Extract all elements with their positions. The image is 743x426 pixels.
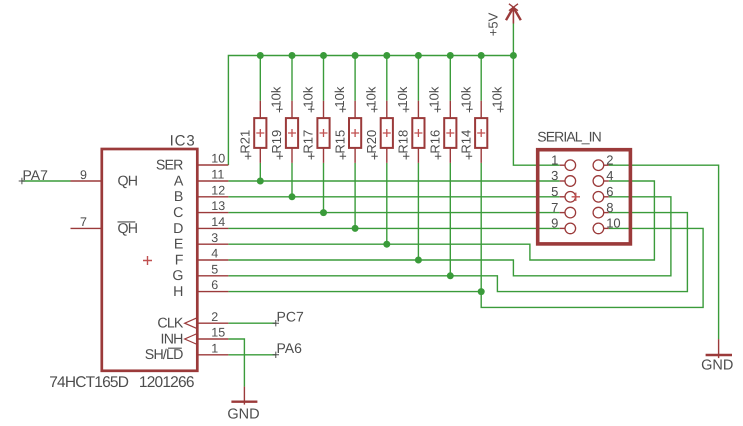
svg-text:15: 15 [211, 326, 225, 340]
wire PA7 to IC pin 9 [22, 180, 71, 182]
svg-text:10k: 10k [332, 86, 347, 107]
wire R17 bottom to net row [323, 163, 325, 213]
wire R21 bottom to net row [259, 163, 261, 181]
svg-text:11: 11 [211, 168, 224, 182]
wire R20 bottom to net row [386, 163, 388, 244]
junction R14 bottom [478, 288, 485, 295]
IC origin cross [143, 256, 152, 265]
svg-text:+5V: +5V [486, 12, 501, 36]
svg-text:5: 5 [211, 262, 218, 276]
svg-text:GND: GND [227, 406, 259, 422]
svg-text:SH/LD: SH/LD [145, 347, 183, 363]
svg-text:10k: 10k [269, 86, 284, 107]
svg-text:R18: R18 [396, 130, 411, 154]
svg-text:R21: R21 [238, 130, 253, 154]
resistor R16 10k [449, 101, 451, 118]
wire R20 top to +5V bus [386, 56, 388, 101]
svg-text:3: 3 [551, 168, 558, 183]
junction R20 top [383, 52, 390, 59]
svg-text:PA6: PA6 [277, 340, 303, 356]
wire R21 top to +5V bus [259, 56, 261, 101]
svg-text:CLK: CLK [157, 316, 184, 332]
svg-text:13: 13 [211, 199, 225, 213]
svg-text:H: H [173, 284, 183, 300]
junction R20 bottom [383, 241, 390, 248]
wire R15 bottom to net row [354, 163, 356, 229]
wire R17 top to +5V bus [323, 56, 325, 101]
wire R16 top to +5V bus [449, 56, 451, 101]
wire R19 bottom to net row [291, 163, 293, 197]
IC IC3 74HCT165D box [102, 149, 198, 371]
wire net B from IC to connector pin 5 [228, 196, 559, 198]
svg-text:10: 10 [211, 152, 225, 166]
svg-text:6: 6 [606, 184, 613, 199]
resistor R19 10k [291, 101, 293, 118]
svg-text:QH: QH [118, 173, 138, 189]
svg-text:2: 2 [606, 152, 613, 167]
svg-text:F: F [175, 252, 184, 268]
wire R16 bottom to net row [449, 163, 451, 276]
resistor R18 10k [417, 101, 419, 118]
junction R17 bottom [320, 209, 327, 216]
wire R18 top to +5V bus [417, 56, 419, 101]
svg-text:R20: R20 [364, 130, 379, 154]
svg-text:10k: 10k [363, 86, 378, 107]
svg-text:IC3: IC3 [170, 133, 196, 150]
svg-text:D: D [173, 221, 183, 237]
svg-text:INH: INH [161, 331, 184, 347]
svg-text:1: 1 [211, 341, 218, 355]
svg-text:7: 7 [80, 215, 87, 229]
svg-text:PC7: PC7 [277, 309, 304, 325]
wire net F from IC wrapping to connector pin 6 [228, 197, 671, 276]
svg-text:R16: R16 [428, 130, 443, 154]
junction R18 bottom [415, 257, 422, 264]
wire +5V riser down to connector pin 1 [513, 24, 559, 166]
connector SERIAL_IN box [538, 150, 631, 244]
clock wedge on INH pin [185, 334, 198, 345]
junction +5V riser on bus [510, 52, 517, 59]
wire net D from IC to connector pin 9 [228, 227, 559, 229]
svg-text:R17: R17 [301, 130, 316, 154]
resistor R21 10k [259, 101, 261, 118]
wire R18 bottom to net row [417, 163, 419, 260]
junction R15 top [352, 52, 359, 59]
svg-text:R15: R15 [332, 130, 347, 154]
svg-text:74HCT165D: 74HCT165D [49, 374, 129, 391]
wire PA6 to IC SH/LD pin [228, 354, 275, 356]
wire net H from IC wrapping to connector pin 10 [228, 228, 703, 307]
wire net C from IC to connector pin 7 [228, 212, 559, 214]
svg-text:R19: R19 [269, 130, 284, 154]
svg-text:GND: GND [701, 358, 733, 374]
svg-text:14: 14 [211, 215, 225, 229]
junction R17 top [320, 52, 327, 59]
resistor R20 10k [386, 101, 388, 118]
svg-text:10: 10 [606, 216, 620, 231]
clock wedge on CLK pin [185, 318, 198, 329]
svg-text:4: 4 [606, 168, 613, 183]
connector pin stubs and pads [560, 164, 565, 166]
svg-text:9: 9 [551, 216, 558, 231]
svg-text:G: G [172, 268, 182, 284]
svg-text:5: 5 [551, 184, 558, 199]
wire net E from IC wrapping to connector pin 4 [228, 181, 654, 260]
wire R15 top to +5V bus [354, 56, 356, 101]
IC right pin stubs [197, 164, 228, 166]
junction R15 bottom [352, 225, 359, 232]
svg-text:8: 8 [606, 200, 613, 215]
svg-text:1201266: 1201266 [139, 374, 194, 391]
junction R21 bottom [257, 178, 264, 185]
svg-text:2: 2 [211, 310, 218, 324]
junction R21 top [257, 52, 264, 59]
svg-text:6: 6 [211, 278, 218, 292]
junction R16 bottom [447, 272, 454, 279]
wire R14 top to +5V bus [480, 56, 482, 101]
junction R16 top [447, 52, 454, 59]
wire net G from IC wrapping to connector pin 8 [228, 213, 687, 292]
svg-text:1: 1 [551, 152, 558, 167]
resistor R14 10k [480, 101, 482, 118]
junction R19 top [289, 52, 296, 59]
connector origin cross at pin 5 [572, 193, 580, 201]
svg-text:SERIAL_IN: SERIAL_IN [537, 129, 601, 145]
ground bottom right (pin2) [718, 339, 720, 358]
svg-text:10k: 10k [300, 86, 315, 107]
ground below IC (INH) [243, 387, 245, 405]
svg-text:E: E [174, 237, 183, 253]
IC left pin stubs (QH pin9, /QH pin7) [71, 180, 102, 182]
svg-text:A: A [174, 173, 184, 189]
svg-text:10k: 10k [395, 86, 410, 107]
svg-text:10k: 10k [459, 86, 474, 107]
wire R19 top to +5V bus [291, 56, 293, 101]
svg-text:SER: SER [156, 157, 183, 173]
svg-text:10k: 10k [427, 86, 442, 107]
wire R14 bottom to net row [480, 163, 482, 292]
svg-text:3: 3 [211, 231, 218, 245]
wire PC7 to IC CLK pin [228, 322, 275, 324]
svg-text:C: C [173, 205, 183, 221]
svg-text:7: 7 [551, 200, 558, 215]
resistor R15 10k [354, 101, 356, 118]
wire connector pin 2 to GND (bottom right) [609, 165, 719, 339]
wire net A from IC to connector pin 3 [228, 180, 559, 182]
junction R18 top [415, 52, 422, 59]
svg-text:10k: 10k [490, 86, 505, 107]
svg-text:R14: R14 [458, 130, 473, 154]
svg-text:QH: QH [118, 221, 138, 237]
svg-text:9: 9 [80, 168, 87, 182]
overline on SH/LD [168, 347, 182, 349]
resistor R17 10k [323, 101, 325, 118]
wire INH pin to GND below IC [228, 339, 244, 387]
wire +5V bus from SER riser to +5V riser [228, 56, 513, 166]
power symbol +5V [506, 4, 521, 24]
junction R14 top [478, 52, 485, 59]
junction R19 bottom [289, 193, 296, 200]
svg-text:12: 12 [211, 183, 225, 197]
svg-text:PA7: PA7 [23, 167, 49, 183]
svg-text:B: B [174, 189, 183, 205]
svg-text:4: 4 [211, 247, 218, 261]
